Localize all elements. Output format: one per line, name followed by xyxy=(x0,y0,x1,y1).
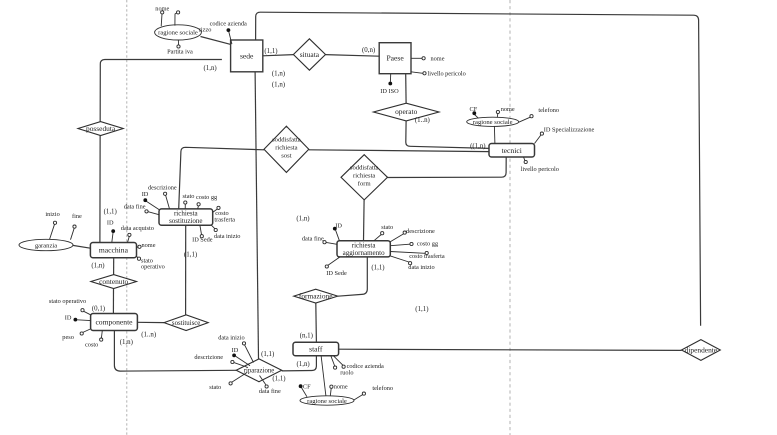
cardinality (1,1) sede-situata xyxy=(264,48,277,55)
svg-text:ruolo: ruolo xyxy=(340,369,353,376)
svg-text:sede: sede xyxy=(240,52,254,61)
svg-text:(1,n): (1,n) xyxy=(91,263,104,270)
wire sede to situata xyxy=(263,55,294,56)
svg-text:(1..n): (1..n) xyxy=(141,332,156,339)
attribute livello pericolo (Paese) xyxy=(411,71,466,78)
attribute costo gg (richiesta aggiornamento) xyxy=(390,241,439,248)
wire componente to riparazione xyxy=(114,331,236,372)
svg-text:stato operativo: stato operativo xyxy=(49,298,86,305)
attribute stato (riparazione) xyxy=(209,373,247,392)
attribute nome (staff) xyxy=(330,383,348,395)
cardinality (1,n) sede below 2 xyxy=(272,81,285,88)
svg-text:Partita iva: Partita iva xyxy=(167,49,193,56)
svg-text:descrizione: descrizione xyxy=(406,228,435,235)
svg-text:(1,1): (1,1) xyxy=(371,265,384,272)
attribute codice azienda (sede, key) xyxy=(210,20,247,44)
attribute stato operativo (macchina) xyxy=(137,256,165,271)
svg-text:nome: nome xyxy=(431,55,445,62)
svg-text:ragione sociale: ragione sociale xyxy=(473,119,513,126)
relationship dipendente xyxy=(682,340,721,361)
attribute ID (riparazione, key) xyxy=(232,347,250,366)
wire soddisfatta-sost left to richiesta sostituzione xyxy=(179,147,264,209)
wire sede to dipendente (top long route) xyxy=(256,12,701,326)
attribute data fine (richiesta sostituzione) xyxy=(124,204,159,215)
wire staff to dipendente xyxy=(339,349,682,350)
svg-text:data fine: data fine xyxy=(259,388,281,395)
wire garanzia to macchina xyxy=(73,245,91,248)
svg-text:telefono: telefono xyxy=(538,107,559,114)
wire formazione to staff xyxy=(315,303,318,342)
svg-text:descrizione: descrizione xyxy=(194,354,223,361)
wire sede to riparazione (long vertical) xyxy=(255,72,258,359)
svg-text:CF: CF xyxy=(470,106,478,113)
cardinality ((1,n) tecnici xyxy=(470,143,486,150)
relationship formazione xyxy=(294,289,338,303)
attribute inizio (garanzia) xyxy=(45,211,59,239)
attribute ID ISO (Paese, key) xyxy=(380,74,399,95)
attribute data inizio (richiesta sostituzione) xyxy=(211,225,240,240)
svg-text:garanzia: garanzia xyxy=(35,242,57,249)
svg-text:data inizio: data inizio xyxy=(408,264,434,271)
cardinality (1,1) richiesta agg-formazione xyxy=(371,265,384,272)
svg-text:riparazione: riparazione xyxy=(244,368,275,375)
svg-text:soddisfatta: soddisfatta xyxy=(350,165,379,172)
attribute ID (richiesta sostituzione, key) xyxy=(142,191,160,210)
relationship contenuto xyxy=(91,275,137,289)
svg-text:costo trasferta: costo trasferta xyxy=(409,253,445,260)
svg-text:ID Specializzazione: ID Specializzazione xyxy=(544,127,595,134)
svg-text:((1,n): ((1,n) xyxy=(470,143,486,150)
svg-text:contenuto: contenuto xyxy=(99,277,128,286)
attribute ID (richiesta aggiornamento, key) xyxy=(333,223,342,241)
entity Paese xyxy=(379,43,411,74)
wire posseduta: sede left horizontal then down through posseduta to macchina xyxy=(100,60,222,243)
svg-text:data acquisto: data acquisto xyxy=(121,225,154,232)
attribute ID Sede (richiesta sostituzione) xyxy=(192,225,213,243)
svg-text:aggiornamento: aggiornamento xyxy=(343,249,385,257)
svg-text:componente: componente xyxy=(95,318,133,327)
relationship sostituisce xyxy=(164,315,208,331)
svg-text:ID: ID xyxy=(335,223,342,230)
relationship soddisfatta richiesta form xyxy=(341,155,388,200)
svg-text:livello pericolo: livello pericolo xyxy=(521,166,559,173)
cardinality (1,1) posseduta-macchina xyxy=(104,209,117,216)
attribute costo trasferta (richiesta aggiornamento) xyxy=(390,251,445,260)
svg-text:fine: fine xyxy=(72,213,82,220)
attribute stato (richiesta sostituzione) xyxy=(183,193,195,209)
svg-text:ragione sociale: ragione sociale xyxy=(307,398,347,405)
wire contenuto to componente xyxy=(112,289,114,314)
svg-text:situata: situata xyxy=(300,50,320,59)
svg-text:rizzo: rizzo xyxy=(199,27,212,34)
svg-text:(0,1): (0,1) xyxy=(92,306,105,313)
attribute nome (Paese) xyxy=(411,55,445,62)
attribute ID Sede (richiesta aggiornamento) xyxy=(325,257,347,277)
svg-text:nome: nome xyxy=(334,383,348,390)
cardinality (0,n) situata-Paese xyxy=(362,47,375,54)
svg-text:Paese: Paese xyxy=(386,54,404,63)
entity componente (rounded) xyxy=(91,314,138,331)
entity staff (rounded) xyxy=(293,342,339,355)
relationship soddisfatta richiesta sost xyxy=(264,126,309,172)
svg-text:(1,n): (1,n) xyxy=(120,339,133,346)
svg-text:ID Sede: ID Sede xyxy=(326,270,347,277)
svg-text:tecnici: tecnici xyxy=(502,146,522,155)
cardinality (1,n) soddisfatta form xyxy=(296,216,309,223)
attribute stato operativo (componente) xyxy=(49,298,91,315)
svg-text:nome: nome xyxy=(501,106,515,113)
cardinality (0,1) contenuto-componente xyxy=(92,306,105,313)
svg-text:(1,n): (1,n) xyxy=(272,81,285,88)
cardinality (1,n) sede-posseduta xyxy=(204,65,217,72)
svg-text:nome: nome xyxy=(142,242,156,249)
attribute costo gg (richiesta sostituzione) xyxy=(196,194,218,209)
relationship riparazione xyxy=(236,359,282,382)
svg-text:costo gg: costo gg xyxy=(417,241,439,248)
svg-text:trasferta: trasferta xyxy=(214,216,235,223)
svg-text:(1,n): (1,n) xyxy=(297,361,310,368)
attribute ID Specializzazione (tecnici) xyxy=(535,127,595,144)
entity macchina (rounded) xyxy=(90,243,136,258)
wire richiesta aggiornamento to formazione xyxy=(338,257,368,296)
svg-text:posseduta: posseduta xyxy=(86,124,116,133)
svg-text:ID: ID xyxy=(65,315,72,322)
svg-text:(1,1): (1,1) xyxy=(261,351,274,358)
svg-text:richiesta: richiesta xyxy=(353,173,375,180)
cardinality (1,n) macchina-contenuto xyxy=(91,263,104,270)
svg-text:stato: stato xyxy=(381,224,393,231)
attribute ruolo (staff) xyxy=(331,356,354,377)
entity tecnici (rounded) xyxy=(489,144,535,158)
attribute descrizione (riparazione) xyxy=(194,354,248,367)
attribute data acquisto (macchina) xyxy=(121,225,154,243)
attribute Partita iva (ragione sociale sede) xyxy=(167,40,193,56)
dashed guide line left xyxy=(126,0,128,435)
cardinality (1,n) operato xyxy=(415,117,430,124)
attribute CF (staff, key) xyxy=(299,383,311,396)
svg-text:sostituisce: sostituisce xyxy=(172,320,200,327)
attribute nome (tecnici) xyxy=(496,106,515,117)
svg-text:(1,1): (1,1) xyxy=(104,209,117,216)
entity sede xyxy=(231,40,263,72)
svg-text:(1,1): (1,1) xyxy=(272,375,285,382)
svg-text:inizio: inizio xyxy=(45,211,59,218)
attribute ragione sociale (sede) xyxy=(155,25,202,40)
wire richiesta sostituzione to sostituisce xyxy=(185,225,187,315)
svg-text:telefono: telefono xyxy=(372,385,393,392)
svg-text:dipendente: dipendente xyxy=(685,345,718,354)
svg-text:(1..n): (1..n) xyxy=(415,117,430,124)
relationship operato xyxy=(373,103,439,121)
attribute telefono (staff) xyxy=(354,385,394,400)
svg-text:staff: staff xyxy=(309,345,323,354)
svg-text:(1,n): (1,n) xyxy=(296,216,309,223)
svg-text:stato: stato xyxy=(209,384,221,391)
attribute data fine (richiesta aggiornamento) xyxy=(302,235,337,244)
svg-text:costo: costo xyxy=(85,342,98,349)
cardinality (n,1) formazione-staff xyxy=(300,333,313,340)
attribute codice azienda (staff) xyxy=(333,356,384,371)
svg-text:formazione: formazione xyxy=(299,291,333,300)
svg-text:ID: ID xyxy=(232,347,239,354)
attribute ID (componente, key) xyxy=(65,315,91,322)
svg-text:livello pericolo: livello pericolo xyxy=(428,71,466,78)
svg-text:operato: operato xyxy=(395,107,417,116)
attribute descrizione (richiesta sostituzione) xyxy=(148,184,177,209)
cardinality (1,n) componente-riparazione xyxy=(120,339,133,346)
attribute garanzia (macchina) xyxy=(19,239,73,250)
svg-text:nome: nome xyxy=(155,6,169,13)
svg-text:CF: CF xyxy=(303,383,311,390)
attribute telefono (tecnici) xyxy=(519,107,559,122)
svg-text:ID: ID xyxy=(107,220,114,227)
svg-text:data inizio: data inizio xyxy=(214,233,240,240)
dashed guide line right xyxy=(509,0,511,435)
attribute costo (componente) xyxy=(85,331,103,349)
attribute nome (macchina) xyxy=(137,242,156,249)
cardinality (1,n) componente-sostituisce xyxy=(141,332,156,339)
svg-text:data fine: data fine xyxy=(124,204,146,211)
attribute peso (componente) xyxy=(62,329,90,341)
svg-text:descrizione: descrizione xyxy=(148,184,177,191)
attribute CF (tecnici, key) xyxy=(470,106,479,118)
wire situata to Paese xyxy=(326,55,380,57)
attribute ragione sociale (tecnici) xyxy=(467,117,519,143)
attribute stato (richiesta aggiornamento) xyxy=(374,224,393,241)
relationship situata xyxy=(293,39,325,70)
wire soddisfatta-form right to tecnici xyxy=(388,157,507,178)
wire soddisfatta-sost right to tecnici xyxy=(309,150,489,152)
cardinality (1,1) riparazione top xyxy=(261,351,274,358)
cardinality (1,n) staff-riparazione xyxy=(297,361,310,368)
attribute costo trasferta (richiesta sostituzione) xyxy=(213,206,236,223)
wire macchina to contenuto xyxy=(113,258,115,275)
attribute fine (garanzia) xyxy=(71,213,82,240)
wire soddisfatta-form to richiesta aggiornamento xyxy=(363,200,366,241)
attribute data inizio (richiesta aggiornamento) xyxy=(390,256,434,271)
svg-text:(1,1): (1,1) xyxy=(184,252,197,259)
svg-text:macchina: macchina xyxy=(99,246,129,255)
svg-text:costo gg: costo gg xyxy=(196,194,218,201)
svg-text:(1,1): (1,1) xyxy=(264,48,277,55)
svg-text:(0,n): (0,n) xyxy=(362,47,375,54)
svg-text:data inizio: data inizio xyxy=(218,334,244,341)
svg-text:soddisfatta: soddisfatta xyxy=(272,137,301,144)
cardinality (1,1) richiesta sost-sostituisce xyxy=(184,252,197,259)
svg-text:(1,n): (1,n) xyxy=(272,71,285,78)
cardinality (1,n) sede below 1 xyxy=(272,71,285,78)
attribute ID (macchina, key) xyxy=(107,220,115,243)
entity richiesta aggiornamento (rounded) xyxy=(337,241,390,257)
svg-text:ID ISO: ID ISO xyxy=(380,88,399,95)
entity richiesta sostituzione (rounded) xyxy=(159,209,213,225)
attribute descrizione (richiesta aggiornamento) xyxy=(390,228,435,242)
wire componente to sostituisce xyxy=(137,321,164,323)
cardinality (1,1) floating xyxy=(415,306,428,313)
wire ragione sociale to sede xyxy=(201,37,232,45)
cardinality (1,1) riparazione bottom xyxy=(272,375,285,382)
svg-text:ragione sociale: ragione sociale xyxy=(158,30,198,37)
svg-text:(n,1): (n,1) xyxy=(300,333,313,340)
svg-text:sostituzione: sostituzione xyxy=(169,217,202,225)
attribute data fine (riparazione) xyxy=(259,376,281,396)
wire operato to tecnici xyxy=(406,121,489,148)
svg-text:ID Sede: ID Sede xyxy=(192,237,213,244)
svg-text:(1,1): (1,1) xyxy=(415,306,428,313)
svg-text:sost: sost xyxy=(281,153,291,160)
wire Paese to operato xyxy=(405,74,407,104)
attribute ragione sociale (staff) xyxy=(300,356,354,405)
attribute data inizio (riparazione) xyxy=(218,334,253,362)
svg-text:richiesta: richiesta xyxy=(275,145,297,152)
svg-text:(1,n): (1,n) xyxy=(204,65,217,72)
svg-text:peso: peso xyxy=(62,334,74,341)
attribute nome (ragione sociale sede) xyxy=(155,6,169,27)
svg-text:stato: stato xyxy=(183,193,195,200)
svg-text:form: form xyxy=(358,181,372,188)
svg-text:operativo: operativo xyxy=(141,264,165,271)
attribute livello pericolo (tecnici) xyxy=(521,157,559,173)
svg-text:ID: ID xyxy=(142,191,149,198)
wire riparazione to staff xyxy=(282,356,317,371)
relationship posseduta xyxy=(78,122,123,136)
attribute indirizzo (ragione sociale sede) xyxy=(175,11,211,34)
svg-text:data fine: data fine xyxy=(302,235,324,242)
svg-text:codice azienda: codice azienda xyxy=(210,20,247,27)
